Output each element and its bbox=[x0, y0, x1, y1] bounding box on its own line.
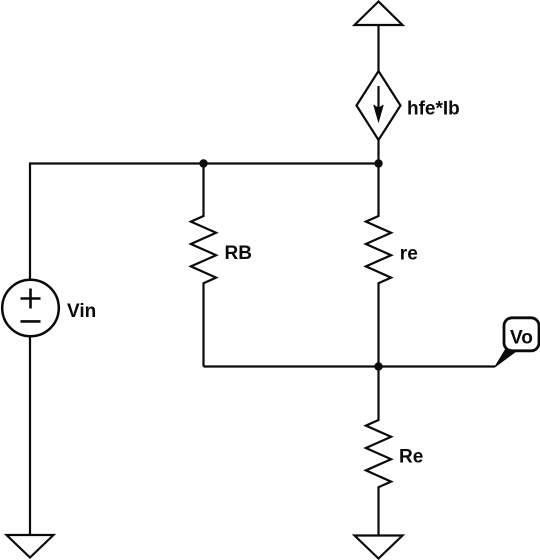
resistor Re bbox=[366, 367, 391, 536]
svg-text:Vo: Vo bbox=[510, 328, 533, 349]
junction node (RB top) bbox=[199, 159, 207, 167]
wire top horizontal bbox=[30, 162, 379, 164]
wire current source to top node bbox=[377, 140, 379, 164]
power rail VCC arrow bbox=[355, 2, 403, 26]
svg-text:hfe*Ib: hfe*Ib bbox=[407, 99, 460, 120]
svg-text:Vin: Vin bbox=[67, 301, 96, 322]
junction node (current source / re) bbox=[374, 159, 382, 167]
resistor RB bbox=[191, 164, 216, 367]
output probe Vo callout bbox=[495, 318, 539, 367]
voltage source Vin bbox=[2, 280, 59, 337]
wire left vertical to Vin bbox=[29, 162, 31, 279]
wire VCC to current source bbox=[377, 25, 379, 71]
wire bottom horizontal (emitter node to Vo tap) bbox=[204, 365, 496, 367]
current source U1 hfe*Ib (diamond with arrow) bbox=[357, 71, 401, 140]
svg-text:re: re bbox=[400, 244, 418, 265]
svg-text:Re: Re bbox=[399, 446, 423, 467]
ground (right) bbox=[355, 536, 403, 559]
ground (left) bbox=[7, 535, 54, 558]
junction node (emitter) bbox=[374, 362, 382, 370]
svg-text:RB: RB bbox=[225, 243, 252, 264]
resistor re bbox=[366, 164, 391, 367]
wire Vin to ground bbox=[29, 337, 31, 535]
